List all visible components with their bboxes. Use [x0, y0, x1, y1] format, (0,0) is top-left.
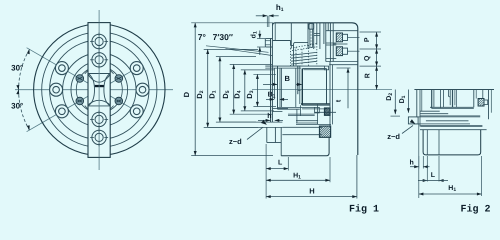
fig2 jaw block walls — [431, 90, 433, 109]
hub inner circle — [76, 67, 122, 113]
fig1 d1 hole rect — [265, 38, 272, 40]
fig2 foot inner verticals — [426, 130, 428, 155]
bolt hole 4 inner — [133, 65, 140, 72]
dimension H1 ext line right — [329, 157, 331, 182]
fig1 lower-left step lines — [273, 107, 289, 109]
fig2 dimension H1 — [481, 156, 483, 196]
fig2 band lines — [420, 110, 440, 112]
fig2 body block walls — [449, 90, 451, 106]
fig1 central hole left wall (thick) — [301, 69, 303, 106]
svg-text:7′30″: 7′30″ — [213, 32, 233, 42]
dimension D<tspan font-size="5 line — [219, 57, 221, 123]
fig1 bore step vertical 1 — [319, 23, 321, 49]
dimension H1 — [266, 179, 330, 181]
jaw screw 2 cross ticks — [90, 59, 94, 61]
jaw edge chamfer tick top-right — [110, 70, 113, 74]
dimension D<tspan font-size="5 line — [256, 74, 258, 106]
fig1 bore horizontal 64 — [329, 64, 358, 66]
dimensions P Q R vertical line — [376, 32, 378, 90]
fig1 plug Q (hatched) — [336, 47, 342, 56]
dimension t — [337, 67, 351, 69]
dimension B — [263, 83, 277, 85]
svg-text:30°: 30° — [11, 101, 23, 110]
fig1 front flange band top line — [220, 121, 283, 123]
fig1 bore step vertical 4 — [327, 23, 329, 31]
svg-text:Fig 1: Fig 1 — [349, 203, 379, 215]
bolt hole 4 outer — [130, 62, 143, 75]
svg-text:Fig 2: Fig 2 — [460, 203, 490, 215]
jaw edge chamfer tick top-left — [85, 70, 88, 74]
PQR tick lines — [360, 31, 382, 33]
fig2 right edge lines — [488, 90, 490, 120]
fig2 left column verticals — [416, 90, 418, 117]
bolt hole 2 inner — [53, 86, 60, 93]
PQR arrows — [375, 32, 378, 37]
svg-text:L: L — [431, 172, 436, 179]
fig1 detent hook — [298, 85, 301, 91]
jaw screw 2 outer circle — [92, 53, 106, 67]
fig2 dimension D1 — [407, 90, 409, 113]
svg-text:B1: B1 — [268, 91, 276, 99]
bolt hole 6 inner — [133, 108, 140, 115]
fig1 bottom plug pocket lines — [282, 126, 322, 128]
fig1 jaw block left edge — [293, 46, 295, 67]
dimension h1 — [266, 16, 268, 27]
fig1 jaw block top edge — [294, 42, 309, 45]
fig1 bottom plug (hatched) — [320, 126, 331, 137]
jaw screw 1 inner circle — [95, 37, 103, 45]
fig1 bore step vertical 6 — [332, 23, 334, 62]
fig1 serration slanted lines — [291, 52, 317, 55]
fig1 block top line — [265, 65, 301, 67]
jaw guideway rectangle (front) — [88, 23, 110, 158]
fig1 body left face inner line — [272, 23, 274, 122]
fig2 detent hook — [448, 90, 449, 97]
bolt hole 5 inner — [139, 86, 146, 93]
fig1 body top face — [273, 23, 358, 29]
svg-text:h: h — [410, 159, 414, 167]
fig1 jaw guide block left wall — [277, 66, 279, 109]
fig1 body right edge — [357, 29, 359, 156]
fig2 top face line — [414, 89, 494, 91]
fig1 mounting screw shaft — [310, 29, 313, 47]
fig1 plug Q stem — [343, 48, 348, 54]
dimension H — [266, 196, 357, 198]
bolt hole 1 outer — [55, 62, 68, 75]
fig1 bore horizontal 2 — [333, 43, 347, 45]
fig1 top-left step line 2 — [291, 45, 294, 47]
fig1 lower step verticals — [296, 109, 298, 123]
jaw bore frown arc (lower) — [88, 100, 110, 105]
fig1 block top line 2 — [265, 67, 301, 69]
hub screw 1 (hatched) — [76, 75, 84, 83]
fig2 d hole — [408, 117, 418, 124]
dimension D<tspan font-size="5 line — [244, 70, 246, 111]
dimension L — [266, 168, 288, 170]
fig2 base block top — [420, 129, 487, 131]
bolt hole 1 inner — [59, 65, 66, 72]
left view diagonal centerline lower-left to upper-right (30 deg) — [27, 65, 143, 132]
fig1 block bottom lines — [278, 106, 316, 108]
jaw screw 1 cross ticks — [90, 41, 94, 43]
bolt hole 6 outer — [130, 105, 143, 118]
fig1 foot block bottom — [267, 142, 281, 144]
jaw screw 4 cross ticks — [90, 136, 94, 138]
dimension B1 — [266, 98, 274, 100]
jaw waist left concave arc — [88, 74, 95, 106]
fig1 serration bottom line — [291, 65, 325, 67]
fig1 lines between plugs — [326, 42, 337, 44]
fig1 bore ledge lines — [314, 32, 320, 34]
fig1 jaw guide block left wall inner — [279, 68, 281, 107]
fig2 dimension D2 — [394, 90, 396, 115]
hub circle — [71, 61, 128, 118]
chuck outer circle — [34, 24, 165, 155]
fig1 central hole top — [302, 68, 326, 70]
jaw screw 3 cross ticks — [90, 118, 94, 120]
hub screw 2 (hatched) — [115, 75, 123, 83]
fig1 central hole bottom (thick) — [301, 103, 330, 105]
fig1 body bottom face — [281, 137, 329, 156]
svg-text:D2: D2 — [386, 93, 394, 101]
fig1 lower step rect — [315, 107, 320, 113]
30 degree dimension arc lower — [19, 90, 30, 130]
fig1 screw bore left wall — [307, 23, 309, 49]
jaw vertical centerline inside — [98, 23, 100, 158]
fig1 central hole right wall — [326, 69, 328, 104]
30 degree dimension arc upper — [19, 49, 30, 89]
svg-text:P: P — [364, 37, 371, 42]
fig1 front flange band bottom line — [208, 126, 283, 128]
dimension D<tspan font-size="5 line — [233, 64, 235, 114]
svg-text:H: H — [309, 187, 314, 196]
bolt hole 3 inner — [59, 108, 66, 115]
jaw center key mark (solid) — [95, 85, 104, 87]
bolt band outer circle — [50, 40, 149, 139]
svg-text:D1: D1 — [399, 95, 407, 103]
dimension D line — [194, 23, 196, 156]
fig1 block right wall 3 — [299, 66, 301, 104]
jaw edge chamfer tick bottom-right — [110, 106, 113, 110]
fig1 body left face outer line — [270, 39, 272, 123]
fig2 base block — [423, 130, 481, 155]
dimension d1 — [257, 38, 265, 40]
jaw waist right concave arc — [104, 74, 110, 106]
bolt hole 2 outer — [50, 83, 63, 96]
svg-text:R: R — [364, 73, 371, 78]
fig1 phantom jaw dotted outline — [291, 44, 317, 49]
svg-text:H1: H1 — [293, 173, 301, 181]
fig1 bore horizontal 1 — [326, 30, 358, 32]
fig1 block right wall 2 — [295, 68, 297, 107]
bolt band inner circle — [63, 53, 136, 126]
fig1 d1 hole inner lines — [265, 40, 270, 42]
dimension h (fig1) — [258, 119, 270, 121]
jaw screw 4 inner circle — [95, 133, 103, 141]
fig2 dimension L — [418, 124, 420, 198]
fig1 bore step vertical 5 — [329, 23, 331, 62]
z-d leader fig1 — [247, 127, 263, 139]
jaw screw 3 outer circle — [92, 112, 106, 126]
svg-text:30°: 30° — [11, 63, 23, 72]
fig1 mounting screw head — [309, 24, 314, 30]
fig1 top-left inner vertical — [274, 23, 276, 41]
fig1 plug P centerline — [348, 37, 360, 39]
jaw screw 3 inner circle — [95, 115, 103, 123]
svg-text:B: B — [284, 74, 290, 83]
jaw waist lower chamfer line — [88, 105, 110, 107]
fig1 slot line b — [281, 68, 283, 107]
fig1 horizontal centerline — [252, 89, 392, 91]
dimension L ext lines — [265, 144, 267, 199]
fig1 slot line a — [273, 68, 275, 99]
svg-text:H1: H1 — [448, 185, 456, 193]
fig1 right edge extension to H dim — [356, 155, 358, 199]
fig1 hole top-right notch — [325, 66, 329, 70]
leader lines for serration angles — [206, 46, 269, 53]
hub screw 3 (hatched) — [76, 97, 84, 105]
bolt hole 5 outer — [136, 83, 149, 96]
jaw bore smile arc (upper) — [88, 75, 110, 83]
jaw screw 2 inner circle — [95, 56, 103, 64]
jaw edge chamfer tick bottom-left — [85, 106, 88, 110]
fig1 plug P (hatched) — [336, 33, 342, 42]
fig2 plug stem — [484, 100, 488, 105]
svg-text:7°: 7° — [198, 32, 207, 42]
fig1 block right wall — [297, 66, 299, 94]
fig1 screw bore right wall — [313, 23, 315, 49]
svg-text:z−d: z−d — [387, 132, 400, 141]
jaw screw 1 outer circle — [92, 34, 106, 48]
left view diagonal centerline upper-left to lower-right (30 deg) — [27, 48, 143, 115]
fig1 foot block right edge — [274, 127, 276, 142]
dimension D<tspan font-size="5 line — [207, 49, 209, 127]
chuck outer ring circle — [42, 32, 157, 147]
fig1 foot block left edge — [266, 127, 268, 142]
fig1 slot wall left — [290, 23, 292, 48]
fig1 lower body left edge — [280, 127, 282, 155]
fig1 slot wall right — [316, 23, 318, 44]
fig1 bore step vertical 2 — [323, 23, 325, 44]
left view horizontal centerline — [15, 89, 173, 91]
fig1 lower guide lines — [288, 113, 315, 115]
fig1 top-left step vertical — [290, 41, 292, 46]
hub screw 4 (hatched) — [115, 97, 123, 105]
fig1 bore wall right 1 — [329, 62, 331, 128]
fig1 plug P stem — [343, 34, 348, 40]
fig2 z-d leader — [402, 126, 413, 134]
jaw waist upper chamfer line — [88, 73, 110, 75]
svg-text:z−d: z−d — [229, 137, 242, 146]
fig1 lines at 124 — [296, 123, 331, 125]
svg-text:Q: Q — [364, 55, 371, 61]
svg-text:D: D — [182, 91, 191, 97]
fig1 plug Q centerline — [348, 50, 360, 52]
left view vertical centerline — [98, 10, 100, 170]
bolt hole 3 outer — [55, 105, 68, 118]
jaw screw 4 outer circle — [92, 130, 106, 144]
svg-text:h: h — [267, 112, 271, 120]
svg-text:L: L — [278, 160, 283, 167]
fig1 dark nut (hatched) — [325, 108, 331, 115]
fig1 bore step vertical 3 — [325, 23, 327, 62]
fig1 bore wall right 2 — [331, 65, 333, 125]
fig1 top-left step line 1 — [273, 40, 291, 42]
fig2 dimension h — [418, 156, 420, 169]
fig2 plug (hatched) — [478, 99, 484, 107]
fig2 shoulder lines — [430, 106, 474, 108]
